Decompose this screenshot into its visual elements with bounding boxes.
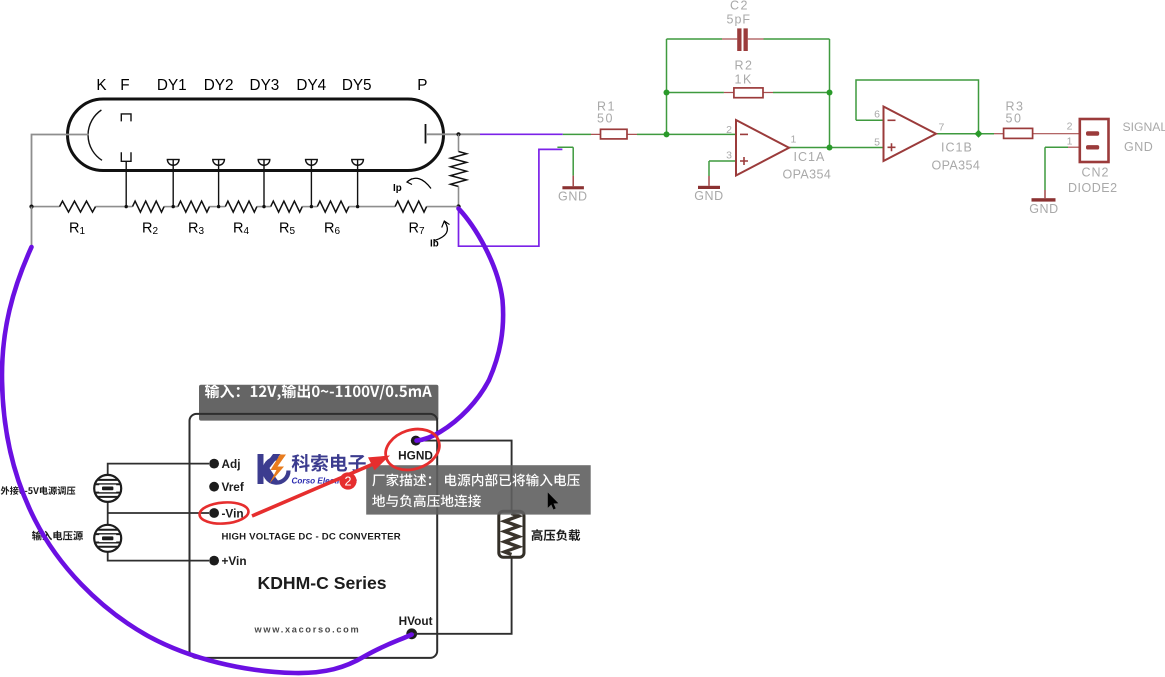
banner text 输入12V 输出0~-1100V/0.5mA [205, 384, 432, 400]
label 外接0-5V电源调压 [1, 486, 76, 495]
wire: divider chain rail [32, 206, 459, 208]
svg-text:7: 7 [939, 122, 945, 134]
svg-text:5: 5 [874, 137, 880, 149]
wire: load to HVout [412, 557, 512, 634]
resistor R3 50 [994, 133, 1004, 135]
ground GND (CN2) [1044, 190, 1046, 198]
svg-text:GND: GND [1029, 202, 1059, 216]
resistor R2 [133, 201, 165, 212]
wire: between sources [107, 502, 109, 524]
svg-text:1K: 1K [735, 73, 753, 87]
svg-text:HVout: HVout [399, 614, 433, 628]
wire: divider bottom to signal ground (purple) [459, 149, 563, 246]
ground GND (left of R1) [572, 176, 574, 187]
mouse cursor [548, 493, 559, 510]
ground GND (IC1A pin3) [708, 176, 710, 186]
tooltip text line2 [372, 494, 481, 507]
dynode DY4 electrode [305, 160, 318, 207]
filament F bottom bracket [121, 152, 131, 161]
node junction J2 [664, 131, 670, 137]
HV module KDHM-C outline [190, 414, 438, 658]
svg-text:Adj: Adj [222, 457, 241, 471]
svg-text:1: 1 [1067, 136, 1073, 148]
tooltip box [366, 465, 591, 514]
resistor R5 [271, 201, 303, 212]
wire: green nets IC1A stage [557, 39, 1068, 190]
node junction J1 [664, 90, 670, 96]
node: divider tap 6 [356, 205, 359, 208]
svg-text:DY2: DY2 [204, 77, 234, 94]
node: divider tap 2 [172, 205, 175, 208]
voltage source adjust source V2 [93, 475, 123, 502]
op-amp IC1B OPA354 [884, 107, 937, 162]
electrode labels K F DY1-DY5 P [96, 77, 427, 94]
svg-text:KDHM-C Series: KDHM-C Series [258, 573, 387, 593]
svg-text:SIGNAL: SIGNAL [1123, 120, 1165, 134]
svg-text:Vref: Vref [222, 480, 244, 494]
dynode DY3 electrode [258, 160, 271, 207]
anode P electrode [425, 124, 427, 144]
capacitor C2 5pF [722, 38, 764, 40]
svg-text:GND: GND [1124, 140, 1153, 154]
svg-text:DY1: DY1 [157, 77, 187, 94]
wire: HGND to load [416, 441, 512, 512]
svg-text:+Vin: +Vin [222, 554, 247, 568]
module pin +Vin [209, 556, 219, 566]
corso logo 科索电子 [292, 454, 366, 472]
resistor R1 [60, 201, 96, 212]
photomultiplier tube V1 envelope [68, 99, 444, 171]
svg-text:5pF: 5pF [727, 13, 752, 27]
svg-text:GND: GND [558, 190, 588, 204]
dynode DY5 electrode [351, 160, 364, 207]
svg-text:DY3: DY3 [250, 77, 280, 94]
svg-text:C2: C2 [730, 0, 749, 13]
svg-text:www.xacorso.com: www.xacorso.com [254, 625, 361, 635]
red ellipse around HGND [380, 422, 444, 476]
svg-text:50: 50 [597, 112, 614, 126]
label 高压负载 [532, 529, 581, 541]
op-amp IC1A OPA354 [736, 120, 789, 176]
dynode DY2 electrode [212, 160, 225, 207]
svg-text:IC1B: IC1B [941, 141, 973, 155]
node: divider tap 3 [217, 205, 220, 208]
HV wire: divider left rail to HVout (curve) [2, 247, 412, 673]
svg-text:6: 6 [874, 109, 880, 121]
module spec banner [199, 385, 438, 421]
svg-text:HIGH VOLTAGE DC - DC CONVERTER: HIGH VOLTAGE DC - DC CONVERTER [222, 532, 401, 543]
corso logo K icon [258, 454, 282, 484]
svg-text:HGND: HGND [398, 449, 433, 463]
wire: Adj to adjust source [108, 464, 209, 475]
svg-text:R2: R2 [735, 59, 754, 73]
wire: anode lead [426, 133, 480, 135]
module pin HGND [411, 436, 421, 446]
svg-text:DY4: DY4 [296, 77, 326, 94]
current arrow Ib [435, 222, 448, 241]
red ellipse around -Vin [199, 501, 249, 525]
current arrow Ip [408, 178, 432, 188]
node: divider tap 1 [125, 205, 128, 208]
resistor R2 1K [724, 92, 773, 94]
module pin HVout [406, 628, 417, 639]
cathode K arc [88, 110, 102, 160]
svg-text:OPA354: OPA354 [783, 168, 832, 182]
svg-text:K: K [96, 77, 107, 94]
svg-text:2: 2 [1067, 121, 1073, 133]
wire: cathode lead to left rail [32, 135, 89, 207]
svg-text:2: 2 [726, 124, 732, 136]
svg-text:GND: GND [694, 189, 724, 203]
resistor R6 [317, 201, 349, 212]
node: anode junction [456, 132, 460, 136]
dynode DY1 electrode [167, 160, 180, 207]
red arrow -Vin to HGND [252, 465, 372, 517]
node junction J3 [827, 90, 833, 96]
resistor R3 [178, 201, 210, 212]
svg-text:CN2: CN2 [1082, 166, 1110, 180]
svg-text:OPA354: OPA354 [932, 159, 981, 173]
HV wire: divider right node to HGND (curve) [417, 209, 504, 441]
node: divider left junction [29, 205, 33, 209]
HV load resistor box [499, 511, 524, 557]
svg-text:Ip: Ip [393, 183, 402, 194]
wire: F lead down to divider [125, 161, 127, 206]
node junction diamond (IC1B fb) [975, 130, 983, 138]
resistor R4 [225, 201, 257, 212]
svg-text:DY5: DY5 [342, 77, 372, 94]
filament F top bracket [121, 114, 131, 122]
node: divider tap 5 [310, 205, 313, 208]
voltage source input source V3 [93, 525, 123, 552]
wire: -Vin to source mid [108, 512, 209, 514]
node junction J4 [827, 145, 833, 151]
red badge 2 [339, 472, 356, 489]
svg-text:3: 3 [726, 150, 732, 162]
module pin Vref [209, 482, 219, 492]
label 输入电压源 [32, 531, 83, 541]
module pin -Vin [209, 508, 219, 518]
wire: +Vin to source bottom [108, 552, 209, 561]
svg-text:P: P [417, 77, 427, 94]
svg-text:Ib: Ib [430, 239, 439, 250]
wire: anode net (purple segment) [480, 133, 563, 135]
resistor R1 50 [591, 133, 637, 135]
svg-text:IC1A: IC1A [794, 150, 826, 164]
svg-text:2: 2 [345, 475, 352, 489]
wire: left rail down to HV curve [31, 207, 33, 247]
svg-text:-Vin: -Vin [222, 507, 244, 521]
node: divider right junction [456, 204, 460, 208]
svg-text:DIODE2: DIODE2 [1068, 181, 1118, 195]
svg-text:1: 1 [791, 134, 797, 146]
HV module KDHM-C body [190, 414, 438, 658]
svg-text:50: 50 [1006, 112, 1023, 126]
module pin Adj [209, 459, 219, 469]
resistor R8 anode load (vertical) [458, 134, 460, 151]
connector CN2 DIODE2 [1068, 146, 1080, 148]
svg-text:F: F [120, 77, 129, 94]
tooltip text line1 [372, 474, 580, 487]
node: divider tap 4 [262, 205, 265, 208]
resistor R7 [395, 201, 427, 212]
resistor chain labels R1-R7 [69, 221, 425, 238]
